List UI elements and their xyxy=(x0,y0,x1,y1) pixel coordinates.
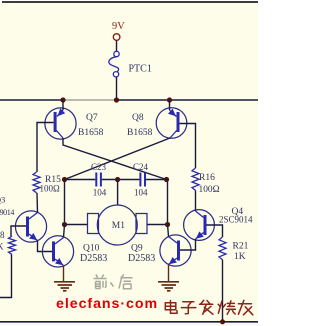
node R21 bottom junction xyxy=(220,319,225,324)
node Q8 emitter junction xyxy=(167,97,172,102)
wire left resistor to left edge exit xyxy=(0,255,12,298)
capacitor C23 xyxy=(96,173,101,187)
resistor R15 xyxy=(33,172,40,193)
annotation text 前、后 (grey) xyxy=(94,275,133,289)
wire bottom bus xyxy=(0,321,258,323)
svg-text:elecfans·com: elecfans·com xyxy=(56,296,158,312)
resistor R16 xyxy=(192,168,199,190)
wire Q4 emitter to Q9 base xyxy=(180,239,196,250)
svg-text:100Ω: 100Ω xyxy=(40,183,61,193)
svg-text:100Ω: 100Ω xyxy=(199,185,220,195)
wire Q3 base to left resistor xyxy=(11,226,26,236)
wire left cap node to motor left terminal xyxy=(65,180,88,225)
watermark text 电子发烧友 (drawn strokes) xyxy=(165,300,253,315)
node motor right xyxy=(165,222,170,227)
resistor R18 (left, cropped) xyxy=(9,236,16,255)
transistor Q4 xyxy=(184,210,215,241)
wire Q7 base to R15 xyxy=(37,123,54,173)
svg-text:C24: C24 xyxy=(133,162,149,172)
wire Q8 collector diagonal to left motor node xyxy=(65,138,171,180)
svg-text:Q9: Q9 xyxy=(131,244,143,254)
node motor left xyxy=(62,222,67,227)
svg-text:2SC9014: 2SC9014 xyxy=(0,208,14,217)
svg-text:1K: 1K xyxy=(234,252,246,262)
transistor Q7 xyxy=(45,100,76,139)
svg-text:Q8: Q8 xyxy=(132,113,144,123)
capacitor C24 xyxy=(140,173,145,187)
ground (under Q9) xyxy=(158,282,179,291)
node PTC junction xyxy=(114,97,119,102)
svg-text:R16: R16 xyxy=(199,173,215,183)
wire right cap node to motor right terminal xyxy=(167,180,168,225)
node cap row left xyxy=(62,177,67,182)
fuse PTC1 xyxy=(109,51,119,77)
svg-text:PTC1: PTC1 xyxy=(129,64,152,75)
svg-text:1K: 1K xyxy=(0,241,4,251)
motor M1 xyxy=(88,205,148,245)
wire R16 to Q4 collector xyxy=(195,190,197,211)
sheet top border xyxy=(2,1,258,3)
ground (under Q10) xyxy=(54,282,75,291)
wire top bus right xyxy=(117,99,259,101)
svg-text:9V: 9V xyxy=(112,21,125,32)
svg-text:R18: R18 xyxy=(0,230,5,240)
svg-text:104: 104 xyxy=(134,188,148,198)
wire Q4 base to R21 xyxy=(207,225,223,237)
wire top bus left xyxy=(0,99,63,101)
wire Q8 base to R16 xyxy=(180,124,196,169)
svg-text:B1658: B1658 xyxy=(127,128,153,138)
wire 9V terminal to PTC1 xyxy=(116,40,118,51)
wire motor left node to Q10 collector xyxy=(64,225,65,238)
transistor Q9 xyxy=(160,235,191,266)
svg-text:104: 104 xyxy=(93,188,107,198)
wire Q7 collector diagonal to right motor node xyxy=(63,138,167,180)
svg-text:Q3: Q3 xyxy=(0,195,5,205)
wire Q10 emitter to ground xyxy=(63,266,65,282)
wire R15 to Q3 collector xyxy=(36,193,39,213)
transistor Q10 xyxy=(42,236,73,267)
node Q7 emitter junction xyxy=(60,97,65,102)
svg-text:Q7: Q7 xyxy=(86,113,98,123)
svg-text:B1658: B1658 xyxy=(78,128,104,138)
wire Q9 emitter to ground xyxy=(168,265,170,282)
transistor Q3 xyxy=(15,211,46,242)
wire top bus grey segment xyxy=(63,99,117,101)
wire Q3 emitter to Q10 base xyxy=(38,241,53,252)
svg-text:R21: R21 xyxy=(233,242,249,252)
svg-text:Q10: Q10 xyxy=(83,244,100,254)
node cap row centre xyxy=(115,177,120,182)
svg-text:D2583: D2583 xyxy=(80,253,107,264)
wire R21 to bottom bus xyxy=(222,260,224,322)
resistor R21 xyxy=(219,237,226,260)
svg-text:D2583: D2583 xyxy=(128,253,155,264)
svg-text:2SC9014: 2SC9014 xyxy=(219,215,253,225)
wire PTC1 to top bus xyxy=(116,77,118,100)
power terminal 9V xyxy=(112,21,125,40)
node cap row right xyxy=(164,177,169,182)
svg-text:M1: M1 xyxy=(112,221,125,231)
transistor Q8 xyxy=(156,100,187,138)
svg-text:C23: C23 xyxy=(91,162,107,172)
wire cap row centre to motor xyxy=(117,180,119,206)
wire capacitor row xyxy=(65,179,167,181)
wire motor right node to Q9 collector xyxy=(168,225,169,237)
